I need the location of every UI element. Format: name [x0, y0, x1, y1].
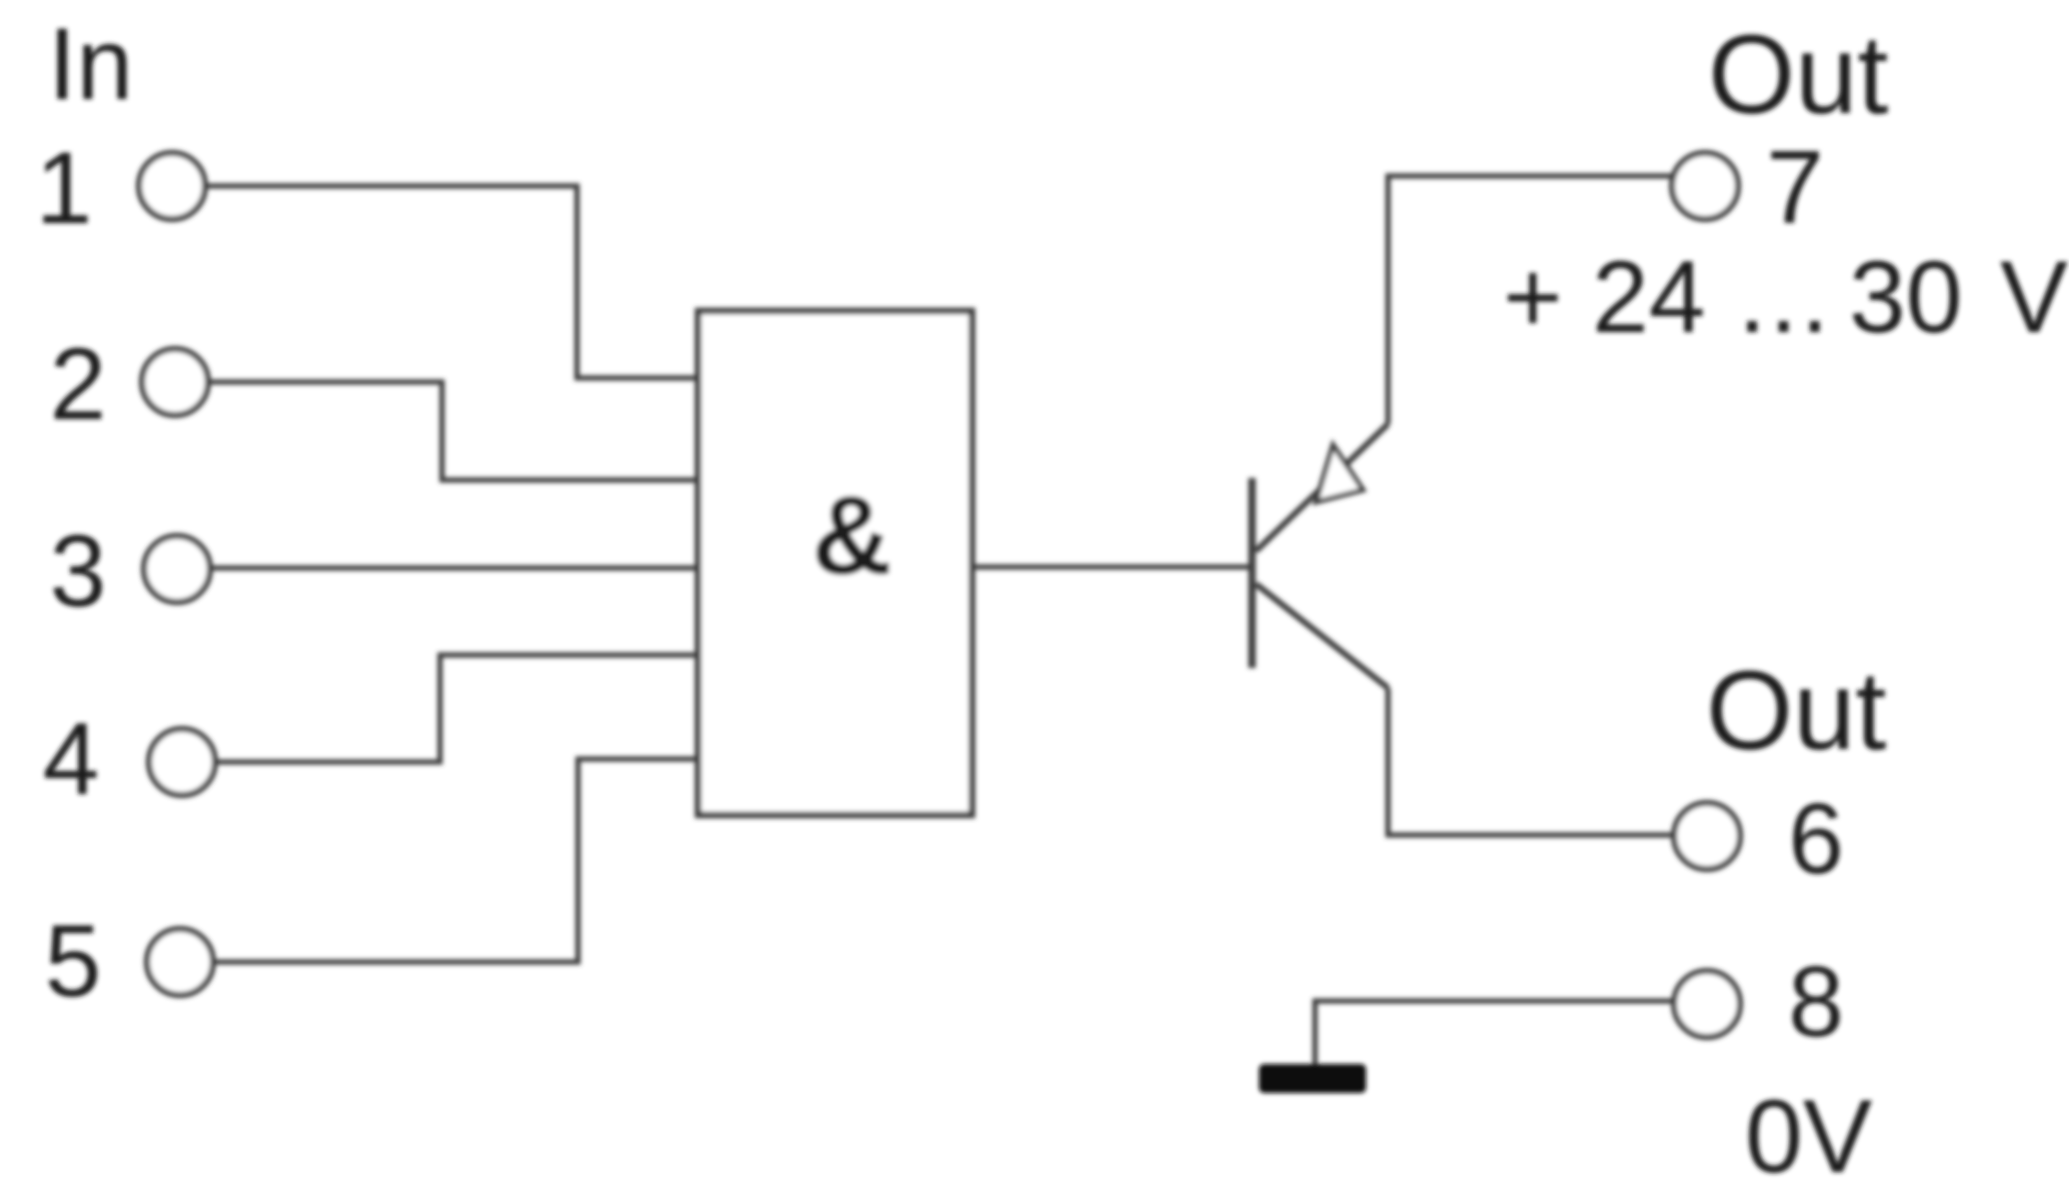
svg-text:Out: Out: [1708, 12, 1889, 137]
svg-text:In: In: [48, 7, 133, 121]
svg-text:3: 3: [50, 514, 107, 628]
svg-text:6: 6: [1788, 783, 1844, 895]
svg-text:8: 8: [1788, 946, 1844, 1058]
svg-text:1: 1: [36, 131, 93, 245]
svg-text:2: 2: [50, 327, 107, 441]
svg-text:Out: Out: [1706, 648, 1887, 773]
svg-text:4: 4: [43, 702, 100, 816]
svg-text:7: 7: [1766, 130, 1824, 246]
svg-text:5: 5: [45, 904, 102, 1018]
svg-text:&: &: [812, 473, 893, 598]
svg-text:0V: 0V: [1745, 1079, 1872, 1195]
